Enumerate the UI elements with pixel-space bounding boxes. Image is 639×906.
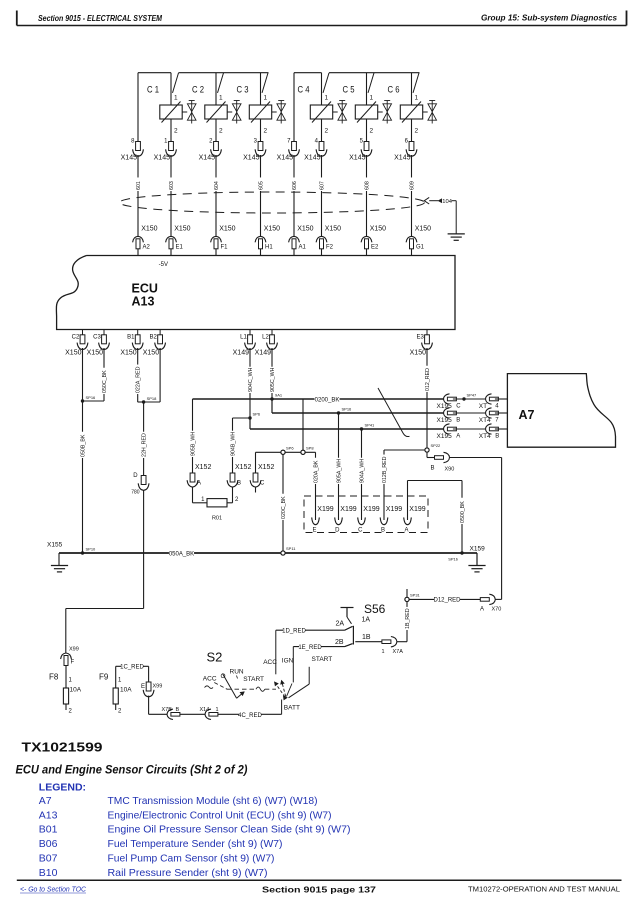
svg-text:X195: X195: [437, 417, 453, 424]
ECU pin C2 / connector X150: [65, 330, 88, 357]
splice SP8: [301, 446, 314, 455]
wire bend to F8: [66, 609, 144, 654]
svg-text:X150: X150: [87, 350, 103, 357]
svg-text:X145: X145: [304, 155, 320, 162]
splice SP22 overlay: [425, 448, 429, 452]
connector XT pin 4: [479, 394, 500, 410]
svg-text:A1: A1: [299, 245, 307, 251]
legend heading: [39, 782, 86, 794]
wire 1B to X7A: [397, 641, 407, 643]
wire injector rail bank2 segment b: [329, 72, 420, 74]
svg-text:904B_WH: 904B_WH: [230, 432, 236, 456]
splice SP22: [425, 443, 441, 452]
ECU A13 designator text: [132, 295, 155, 309]
svg-text:E: E: [312, 528, 316, 534]
svg-text:780: 780: [131, 490, 140, 496]
wire X150 E1 to ECU: [170, 249, 172, 256]
svg-text:X145: X145: [199, 155, 215, 162]
connector X14 pin 1: [200, 707, 219, 720]
svg-text:SP41: SP41: [365, 423, 376, 428]
svg-text:2: 2: [264, 128, 268, 135]
node X155 label: [47, 542, 63, 549]
svg-text:Engine Oil Pressure Sensor Cle: Engine Oil Pressure Sensor Clean Side (s…: [108, 824, 351, 836]
row to X195 A: [250, 428, 444, 430]
wire 608 label: [363, 177, 370, 191]
S2 terminal ACC: [263, 630, 277, 674]
svg-text:B: B: [237, 481, 241, 487]
svg-text:X150: X150: [264, 226, 280, 233]
injector C2 feed slash and drop: [216, 73, 224, 105]
connector X150 pin E2: [361, 226, 386, 251]
TMC A7 box: [507, 374, 615, 448]
injector C2 label: [192, 85, 204, 96]
svg-text:TX1021599: TX1021599: [22, 740, 103, 755]
wire 050B_BK to ground bus: [79, 401, 86, 553]
svg-text:F1: F1: [221, 245, 229, 251]
svg-text:Section 9015 page 137: Section 9015 page 137: [262, 885, 376, 895]
svg-text:X150: X150: [297, 226, 313, 233]
switch S56 designator: [364, 602, 386, 616]
splice SP18: [142, 396, 157, 404]
wire X152-B riser bend: [233, 417, 251, 419]
wire injector rail bank1 segment b: [179, 72, 269, 74]
S2 rotary pointer: [223, 674, 245, 699]
svg-text:C 4: C 4: [298, 85, 310, 96]
label 0200_BK: [314, 396, 339, 403]
wire fuel temp sender feed down: [143, 490, 145, 608]
connector X145 pin 6: [394, 139, 417, 162]
resistor R01 pin 1 label: [201, 497, 205, 503]
resistor R01: [207, 499, 227, 522]
connector X199 pin D: [335, 506, 357, 534]
svg-text:ECU and Engine Sensor Circuits: ECU and Engine Sensor Circuits (Sht 2 of…: [16, 763, 248, 777]
injector C2 pin 1 label: [219, 95, 223, 102]
ECU pin L2 / connector X149: [255, 330, 278, 357]
wire SP31 stub up: [406, 589, 408, 599]
svg-text:Engine/Electronic Control Unit: Engine/Electronic Control Unit (ECU) (sh…: [108, 809, 332, 821]
injector C1 pin 2 label: [174, 128, 178, 135]
legend row A13: [39, 809, 332, 821]
svg-text:C 5: C 5: [343, 85, 355, 96]
svg-text:X99: X99: [69, 647, 79, 653]
svg-text:050C_BK: 050C_BK: [102, 370, 108, 393]
svg-text:ACC: ACC: [203, 675, 217, 682]
fuse F8 pin 2 label: [69, 709, 73, 715]
svg-text:X152: X152: [235, 464, 251, 471]
svg-text:ACC: ACC: [263, 659, 277, 666]
footer rule: [17, 879, 622, 881]
wire D12_RED: [407, 597, 480, 604]
legend row B01: [39, 824, 351, 836]
injector C6 feed slash and drop: [412, 73, 420, 105]
svg-text:050A_BK: 050A_BK: [169, 551, 194, 557]
S2 position ACC label: [203, 675, 217, 682]
figure title: [16, 763, 248, 777]
wire L1 drop to row A: [249, 418, 251, 429]
svg-text:RUN: RUN: [230, 669, 244, 676]
svg-text:X150: X150: [410, 350, 426, 357]
wire injector C3 return drop: [260, 119, 262, 142]
fuse F8 designator: [49, 673, 59, 682]
S2 battery contact fan: [275, 681, 293, 700]
wire B1 stub into splice: [138, 401, 144, 403]
wire 4C_RED to S2 BATT: [218, 712, 282, 719]
shield row: [256, 451, 316, 453]
svg-text:SP8: SP8: [306, 446, 314, 451]
svg-text:C 2: C 2: [192, 85, 204, 96]
svg-text:X149: X149: [233, 350, 249, 357]
splice SP16: [81, 395, 96, 403]
svg-text:START: START: [312, 656, 333, 663]
splice SP11a overlay: [281, 450, 285, 454]
S56 pin 1A label: [362, 617, 371, 624]
svg-text:X150: X150: [65, 350, 81, 357]
svg-text:SP31: SP31: [410, 593, 421, 598]
wire X150 F1 to ECU: [215, 249, 217, 256]
injector C1 pin 1 label: [174, 95, 178, 102]
wire 1D_RED ACC to S56 2A: [276, 626, 353, 634]
wire B2 drop and bend: [138, 348, 160, 402]
injector C4 solenoid coil: [310, 102, 332, 123]
svg-text:SP47: SP47: [467, 393, 478, 398]
splice SP16b on row B: [337, 407, 352, 415]
svg-text:104: 104: [442, 199, 452, 205]
svg-text:SP22: SP22: [431, 443, 442, 448]
wire 1B_RED: [404, 599, 411, 641]
svg-text:609: 609: [409, 181, 415, 190]
svg-text:C 1: C 1: [147, 85, 159, 96]
ECU -5V pin label: [159, 262, 168, 268]
S56 2B contact: [345, 644, 353, 647]
svg-text:BATT: BATT: [284, 705, 300, 712]
svg-text:F2: F2: [326, 245, 334, 251]
wire 604 segment: [215, 155, 217, 236]
connector X145 pin 4: [304, 139, 327, 162]
label 050A_BK: [169, 550, 194, 557]
svg-text:SP6: SP6: [253, 412, 261, 417]
injector C4 nozzle valve: [333, 101, 347, 124]
svg-text:605: 605: [258, 181, 264, 190]
wire X150 A2 to ECU: [137, 249, 139, 256]
wire injector supply left riser bank2: [293, 73, 295, 142]
legend row B07: [39, 853, 275, 865]
TMC A7 designator: [519, 408, 535, 422]
X199 sensor dashed box: [304, 496, 428, 533]
ground bus 050A_BK: [59, 552, 462, 554]
svg-text:C3: C3: [93, 335, 101, 341]
svg-text:B1: B1: [127, 335, 135, 341]
S2 terminal START: [289, 656, 333, 698]
svg-text:X145: X145: [277, 155, 293, 162]
connector X150 pin A1: [289, 226, 314, 251]
wire 606 segment: [293, 155, 295, 236]
svg-text:X14: X14: [200, 707, 210, 713]
svg-text:X7B: X7B: [162, 707, 173, 713]
connector X7B pin B: [162, 707, 180, 720]
wire 020A_BK to X199 E: [312, 452, 319, 520]
connector X150 pin E1: [166, 226, 191, 251]
connector X145 pin 3: [243, 139, 266, 162]
shield drain arrow and wire 104: [424, 197, 456, 234]
wire injector rail bank1 segment a: [138, 72, 171, 74]
svg-text:1A: 1A: [362, 617, 371, 624]
splice SP8 overlay: [301, 450, 305, 454]
connector X152 pin A: [187, 464, 211, 487]
svg-text:C: C: [358, 528, 363, 534]
svg-text:XT: XT: [479, 403, 487, 410]
wire C3 to splice SP16: [83, 400, 105, 402]
connector X195 pin A: [437, 424, 461, 440]
injector C1 label: [147, 85, 159, 96]
svg-text:TMC Transmission Module (sht 6: TMC Transmission Module (sht 6) (W7) (W1…: [108, 795, 318, 807]
header title Group 15: Sub-system Diagnostics: [481, 13, 617, 23]
svg-text:A13: A13: [132, 295, 155, 309]
injector C3 nozzle valve: [272, 101, 286, 124]
twisted pair slash: [378, 388, 410, 437]
legend row B10: [39, 867, 268, 879]
wire 904B_WH X152-B riser: [229, 418, 236, 473]
injector C4 pin 1 label: [325, 95, 329, 102]
svg-text:904C_WH: 904C_WH: [248, 367, 254, 392]
S2 position arc: [205, 686, 214, 689]
svg-text:G1: G1: [416, 245, 425, 251]
connector X70 pin A: [480, 594, 501, 612]
wire 601 segment: [137, 155, 139, 236]
wire bus right to ground: [462, 553, 477, 566]
svg-text:X199: X199: [317, 506, 333, 513]
injector C2 pin 2 label: [219, 128, 223, 135]
wire XT4 4 to A7: [495, 398, 508, 400]
svg-text:B10: B10: [39, 867, 58, 879]
svg-text:X145: X145: [121, 155, 137, 162]
svg-text:020C_BK: 020C_BK: [281, 496, 287, 519]
ECU pin E3 / connector X150: [410, 330, 433, 357]
svg-text:D12_RED: D12_RED: [433, 598, 461, 604]
connector X99 pin F: [61, 647, 79, 666]
legend row A7: [39, 795, 318, 807]
svg-text:607: 607: [319, 181, 325, 190]
ECU A13 box: [56, 256, 455, 330]
S56 pin 2B label: [335, 639, 344, 646]
connector X199 pin C: [358, 506, 380, 534]
fuse F8 bottom stub: [65, 704, 67, 710]
svg-text:X150: X150: [219, 226, 235, 233]
svg-text:4C_RED: 4C_RED: [238, 713, 262, 719]
injector C3 pin 2 label: [264, 128, 268, 135]
svg-text:D: D: [335, 528, 340, 534]
svg-text:X145: X145: [394, 155, 410, 162]
page header rule left bar: [16, 11, 18, 26]
connector X195 pin C: [437, 394, 462, 410]
S2 position O label: [221, 673, 226, 680]
svg-text:A13: A13: [39, 809, 58, 821]
wire 905C_WH L2 drop: [269, 348, 276, 399]
svg-text:S2: S2: [207, 650, 223, 665]
footer page number: [262, 885, 376, 895]
S56 pin 2A label: [336, 621, 345, 628]
wire 603 label: [168, 177, 175, 191]
svg-text:2: 2: [415, 128, 419, 135]
wire 604 label: [213, 177, 220, 191]
node X159 label: [470, 546, 486, 553]
svg-text:2: 2: [370, 128, 374, 135]
svg-text:A: A: [404, 528, 408, 534]
wire X7B to X14: [180, 713, 205, 715]
connector X150 pin H1: [255, 226, 280, 251]
wire 904C_WH L1 drop: [247, 348, 254, 418]
svg-text:601: 601: [136, 181, 142, 190]
connector X199 pin A: [404, 506, 426, 534]
wire X195 B to XT4 7: [453, 412, 486, 414]
connector X195 pin B: [437, 408, 461, 424]
wire X195 C to XT4 4: [453, 398, 486, 400]
svg-text:C 6: C 6: [388, 85, 400, 96]
splice SP1b: [448, 551, 463, 561]
splice SP11 overlay: [281, 551, 285, 555]
svg-text:022A_RED: 022A_RED: [136, 366, 142, 393]
legend row B06: [39, 838, 283, 850]
connector X90 pin B: [430, 452, 454, 472]
connector XT4 pin B: [479, 424, 500, 440]
wire X152-C stub: [255, 487, 257, 493]
wire injector C1 return drop: [170, 119, 172, 142]
svg-text:S56: S56: [364, 602, 386, 616]
svg-text:SP16: SP16: [86, 395, 97, 400]
svg-text:SP11: SP11: [286, 546, 296, 551]
wire 1C_RED to X99 E: [148, 666, 150, 682]
svg-text:1B_RED: 1B_RED: [405, 608, 411, 629]
switch S2 designator: [207, 650, 223, 665]
resistor R01 pin 2 label: [235, 497, 239, 503]
wire 022A_RED B1 drop: [134, 348, 141, 402]
wire injector C6 return drop: [411, 119, 413, 142]
svg-text:905A_WH: 905A_WH: [336, 459, 342, 483]
svg-text:1: 1: [370, 95, 374, 102]
svg-text:ECU: ECU: [132, 282, 158, 296]
S56 pin 1B label: [362, 634, 371, 641]
fuse F9 bottom stub: [115, 704, 117, 710]
connector X150 pin A2: [133, 226, 158, 251]
injector C2 solenoid coil: [205, 102, 227, 123]
fuse F9: [113, 687, 132, 705]
splice SP10: [81, 547, 96, 555]
svg-text:050B_BK: 050B_BK: [80, 434, 86, 457]
svg-text:012B_RED: 012B_RED: [382, 456, 388, 483]
splice SP11a: [281, 446, 294, 455]
splice SP41 on row A: [360, 423, 375, 431]
svg-text:B: B: [456, 418, 460, 424]
connector X145 pin 2: [199, 139, 222, 162]
wire X99 E down: [148, 696, 150, 715]
svg-text:<- Go to Section TOC: <- Go to Section TOC: [20, 887, 87, 894]
svg-text:F9: F9: [99, 673, 109, 682]
svg-text:IGN: IGN: [282, 658, 294, 665]
svg-text:0200_BK: 0200_BK: [315, 397, 340, 403]
svg-text:SP16: SP16: [342, 407, 353, 412]
svg-text:2B: 2B: [335, 639, 344, 646]
wire injector C4 return drop: [321, 119, 323, 142]
svg-text:B: B: [495, 434, 499, 440]
S2 rotary contact dashes: [214, 683, 276, 692]
connector X152 pin C: [250, 464, 274, 487]
svg-text:10A: 10A: [120, 687, 132, 694]
svg-text:2A: 2A: [336, 621, 345, 628]
row 0200_BK to X195 C: [193, 398, 444, 400]
svg-text:Fuel Temperature Sender (sht 9: Fuel Temperature Sender (sht 9) (W7): [108, 838, 283, 850]
splice SP6 on L1: [248, 412, 261, 420]
switch S56 contact bar: [352, 626, 354, 645]
injector C3 solenoid coil: [249, 102, 271, 123]
wire 607 label: [318, 177, 325, 191]
wire X150 G1 to ECU: [411, 249, 413, 256]
svg-text:A2: A2: [143, 245, 151, 251]
svg-text:2: 2: [219, 128, 223, 135]
svg-text:A7: A7: [39, 795, 52, 807]
svg-text:D: D: [133, 473, 138, 479]
svg-text:606: 606: [292, 181, 298, 190]
wire X99F to F8: [65, 666, 67, 689]
svg-text:R01: R01: [212, 516, 222, 522]
svg-text:A: A: [456, 434, 460, 440]
wire F9 top to 1C_RED: [116, 664, 149, 688]
svg-text:X145: X145: [154, 155, 170, 162]
svg-text:X199: X199: [363, 506, 379, 513]
wire 1E_RED IGN to S56 2B: [293, 644, 352, 651]
svg-text:012_RED: 012_RED: [425, 368, 431, 391]
svg-text:X195: X195: [437, 403, 453, 410]
svg-text:START: START: [243, 676, 264, 683]
connector X99 pin E: [141, 682, 162, 697]
splice SP31: [405, 593, 421, 602]
splice SP31 overlay: [405, 597, 409, 601]
svg-text:Section 9015 - ELECTRICAL SYST: Section 9015 - ELECTRICAL SYSTEM: [38, 13, 163, 23]
svg-text:C: C: [456, 404, 461, 410]
wire X152-A to R01: [193, 487, 208, 503]
injector C4 pin 2 label: [325, 128, 329, 135]
wire X150 H1 to ECU: [260, 249, 262, 256]
injector C2 nozzle valve: [227, 101, 241, 124]
svg-text:X145: X145: [243, 155, 259, 162]
svg-text:E: E: [141, 684, 145, 690]
svg-text:E2: E2: [371, 245, 379, 251]
svg-text:1: 1: [415, 95, 419, 102]
svg-text:C: C: [260, 481, 265, 487]
svg-text:10A: 10A: [70, 687, 82, 694]
injector C4 feed slash and drop: [322, 73, 330, 105]
wire 905A_WH to X199 D: [335, 413, 342, 520]
svg-text:608: 608: [364, 181, 370, 190]
svg-text:E1: E1: [176, 245, 184, 251]
svg-text:LEGEND:: LEGEND:: [39, 782, 86, 794]
page header horizontal rule: [17, 25, 627, 27]
connector X145 pin 1: [154, 139, 177, 162]
svg-text:L2: L2: [262, 335, 269, 341]
wire 606 label: [291, 177, 298, 191]
connector X150 pin F2: [316, 226, 341, 251]
connector X145 pin 5: [349, 139, 372, 162]
svg-text:A: A: [197, 481, 201, 487]
svg-text:X155: X155: [47, 542, 63, 549]
connector X150 pin G1: [406, 226, 431, 251]
svg-text:1: 1: [219, 95, 223, 102]
ground X155: [51, 566, 68, 572]
svg-text:X199: X199: [386, 506, 402, 513]
svg-text:A7: A7: [519, 408, 535, 422]
svg-text:XT4: XT4: [479, 417, 491, 424]
wire S56 1B to X7A: [355, 641, 382, 643]
wire bottom feed row: [149, 713, 167, 715]
svg-text:9A1: 9A1: [275, 393, 283, 398]
